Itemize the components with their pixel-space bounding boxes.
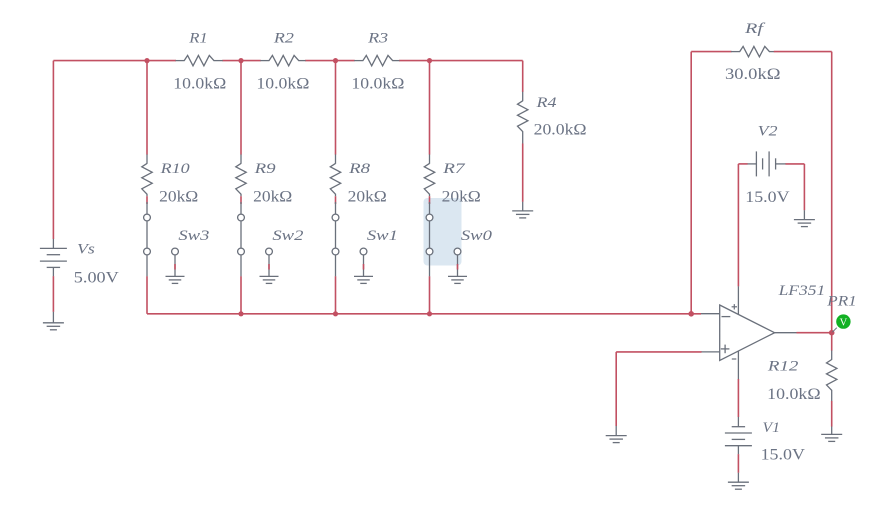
svg-text:10.0kΩ: 10.0kΩ bbox=[256, 75, 309, 92]
svg-text:20.0kΩ: 20.0kΩ bbox=[534, 122, 587, 139]
svg-text:Sw1: Sw1 bbox=[367, 228, 398, 244]
svg-text:Rf: Rf bbox=[744, 21, 766, 37]
svg-text:5.00V: 5.00V bbox=[74, 269, 119, 286]
svg-text:Sw3: Sw3 bbox=[178, 228, 209, 244]
svg-text:15.0V: 15.0V bbox=[761, 446, 806, 463]
svg-text:LF351: LF351 bbox=[777, 283, 825, 299]
svg-text:R8: R8 bbox=[348, 161, 371, 177]
svg-text:R4: R4 bbox=[535, 95, 557, 111]
svg-text:20kΩ: 20kΩ bbox=[442, 189, 481, 206]
svg-text:Sw2: Sw2 bbox=[272, 228, 304, 244]
svg-text:PR1: PR1 bbox=[826, 294, 857, 310]
svg-text:20kΩ: 20kΩ bbox=[159, 189, 198, 206]
svg-text:V: V bbox=[840, 317, 848, 328]
svg-text:15.0V: 15.0V bbox=[745, 189, 790, 206]
svg-text:R1: R1 bbox=[188, 30, 208, 46]
svg-text:R10: R10 bbox=[159, 161, 190, 177]
svg-text:R7: R7 bbox=[442, 161, 467, 177]
svg-text:V1: V1 bbox=[763, 420, 780, 436]
svg-text:R12: R12 bbox=[767, 359, 799, 375]
svg-text:R9: R9 bbox=[253, 161, 276, 177]
svg-text:30.0kΩ: 30.0kΩ bbox=[725, 66, 781, 83]
svg-text:20kΩ: 20kΩ bbox=[253, 189, 292, 206]
svg-text:Vs: Vs bbox=[77, 242, 95, 258]
svg-text:R3: R3 bbox=[367, 30, 388, 46]
svg-text:V2: V2 bbox=[758, 124, 778, 140]
svg-text:10.0kΩ: 10.0kΩ bbox=[351, 75, 404, 92]
svg-text:20kΩ: 20kΩ bbox=[348, 189, 387, 206]
svg-text:R2: R2 bbox=[273, 30, 295, 46]
svg-text:10.0kΩ: 10.0kΩ bbox=[173, 75, 226, 92]
svg-text:10.0kΩ: 10.0kΩ bbox=[767, 386, 821, 403]
svg-text:Sw0: Sw0 bbox=[461, 228, 493, 244]
